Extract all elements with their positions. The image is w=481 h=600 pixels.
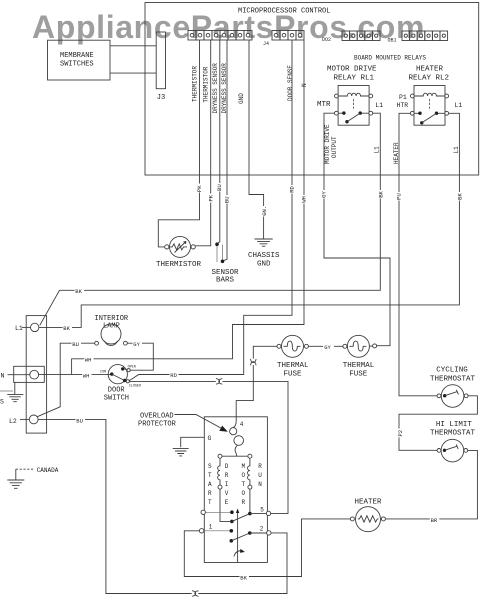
centrifugal switch upper contacts bbox=[201, 506, 271, 523]
svg-text:RD: RD bbox=[170, 372, 177, 379]
wire label BK at L1 terminal bbox=[63, 324, 73, 331]
wire BK RL2 L1 long run to terminal L1 bbox=[39, 113, 460, 327]
svg-text:THERMISTOR: THERMISTOR bbox=[156, 261, 202, 269]
wire label BK under RL2 bbox=[456, 192, 464, 201]
hi limit thermostat bbox=[430, 421, 476, 462]
wire GY lamp to door switch open bbox=[128, 343, 154, 370]
wire membrane to J3 lower bbox=[110, 72, 156, 74]
wire label GY top bbox=[320, 190, 328, 199]
connector J4 pin row bbox=[188, 31, 269, 48]
svg-text:CANADA: CANADA bbox=[37, 467, 59, 474]
svg-text:DOOR SENSE: DOOR SENSE bbox=[287, 65, 294, 101]
svg-text:BK: BK bbox=[75, 288, 82, 295]
svg-text:S: S bbox=[208, 463, 212, 470]
svg-text:R: R bbox=[258, 463, 262, 470]
svg-text:BK: BK bbox=[240, 574, 247, 581]
svg-text:A: A bbox=[208, 481, 212, 488]
wire BU dryness 2 bbox=[223, 40, 228, 261]
wire label BU 1 bbox=[216, 183, 224, 192]
svg-text:SWITCHES: SWITCHES bbox=[60, 60, 94, 68]
svg-text:BU: BU bbox=[72, 341, 79, 348]
svg-text:P1: P1 bbox=[399, 94, 407, 101]
svg-text:S: S bbox=[0, 399, 4, 406]
wire label GY between fuses bbox=[323, 343, 334, 350]
svg-text:U: U bbox=[258, 472, 262, 479]
heater bbox=[350, 499, 385, 532]
svg-text:T: T bbox=[208, 472, 212, 479]
wire label P2 bbox=[397, 429, 404, 438]
svg-text:DRYNESS SENSOR: DRYNESS SENSOR bbox=[212, 63, 219, 114]
wire BK RL1 L1 to terminal L1 bbox=[40, 113, 381, 325]
wire label BU at L2 bbox=[76, 416, 86, 423]
run winding bbox=[248, 458, 252, 513]
wire label BU 2 bbox=[223, 195, 231, 204]
svg-text:L1: L1 bbox=[373, 146, 380, 154]
svg-text:THERMAL: THERMAL bbox=[277, 362, 309, 370]
svg-text:SWITCH: SWITCH bbox=[104, 394, 129, 402]
relay RL2 heater bbox=[397, 65, 463, 125]
svg-text:OPEN: OPEN bbox=[128, 366, 136, 370]
svg-text:O: O bbox=[242, 472, 246, 479]
wire label WH row2 bbox=[82, 371, 92, 378]
wire cycling thermostat to hi limit (P2) bbox=[399, 396, 477, 451]
wire label RD at door switch bbox=[170, 371, 179, 378]
membrane switches box bbox=[48, 40, 111, 80]
cycling thermostat bbox=[430, 367, 476, 408]
wire door closed to motor terminal 5 bbox=[129, 381, 288, 513]
svg-text:THERMOSTAT: THERMOSTAT bbox=[430, 429, 476, 437]
svg-text:L1: L1 bbox=[455, 102, 463, 109]
svg-text:THERMISTOR: THERMISTOR bbox=[192, 66, 199, 102]
svg-text:T: T bbox=[208, 499, 212, 506]
wire thermal fuse 1 to fuse 2 bbox=[309, 345, 345, 347]
wire RD door sense bbox=[129, 40, 292, 381]
svg-text:R: R bbox=[225, 472, 229, 479]
svg-text:4: 4 bbox=[240, 421, 244, 428]
svg-text:M: M bbox=[242, 463, 246, 470]
wire label BU at lamp bbox=[72, 340, 82, 347]
microprocessor control board box bbox=[145, 3, 479, 176]
svg-text:J3: J3 bbox=[157, 94, 165, 102]
wire label BK under RL1 bbox=[377, 190, 385, 199]
svg-text:D: D bbox=[225, 463, 229, 470]
svg-text:GY: GY bbox=[321, 190, 328, 197]
motor winding top row bbox=[222, 455, 248, 457]
svg-text:BK: BK bbox=[63, 325, 70, 332]
wire PK thermistor 1 bbox=[158, 40, 199, 247]
wire label WH top bbox=[300, 195, 308, 204]
connector pin row door sense / N bbox=[272, 31, 304, 41]
winding name letters DRIVE bbox=[225, 463, 229, 506]
svg-text:2: 2 bbox=[260, 526, 264, 533]
svg-text:RELAY RL1: RELAY RL1 bbox=[334, 75, 375, 83]
svg-text:MTR: MTR bbox=[317, 101, 331, 109]
wire label BK long row bbox=[75, 287, 85, 294]
svg-text:N: N bbox=[258, 481, 262, 488]
interior lamp bbox=[95, 315, 129, 346]
wire hi limit to heater (BR) bbox=[386, 450, 478, 519]
svg-text:HTR: HTR bbox=[397, 102, 409, 109]
connector OB1 bbox=[388, 31, 448, 44]
svg-text:BOARD MOUNTED RELAYS: BOARD MOUNTED RELAYS bbox=[354, 55, 426, 62]
svg-text:THERMAL: THERMAL bbox=[343, 362, 375, 370]
svg-text:DOOR: DOOR bbox=[108, 386, 126, 394]
svg-text:P2: P2 bbox=[397, 430, 404, 437]
motor ground G bbox=[173, 435, 212, 456]
svg-text:V: V bbox=[225, 490, 229, 497]
connector DO2 bbox=[322, 31, 380, 43]
winding name letters MOTOR bbox=[242, 463, 246, 506]
thermal fuse 1 bbox=[277, 335, 309, 378]
svg-text:THERMOSTAT: THERMOSTAT bbox=[430, 375, 476, 383]
svg-text:HEATER: HEATER bbox=[416, 65, 444, 73]
wire thermal fuse 1 to motor overload terminal 4 bbox=[236, 346, 277, 421]
inline connector on bottom BU run bbox=[192, 591, 198, 597]
connector J3 bbox=[156, 32, 165, 102]
svg-text:E: E bbox=[225, 499, 229, 506]
svg-text:RELAY RL2: RELAY RL2 bbox=[409, 75, 450, 83]
wire label BK bottom row bbox=[240, 573, 250, 580]
svg-text:GN.: GN. bbox=[261, 206, 268, 216]
wire GY motor drive output to thermal fuse 2 bbox=[324, 113, 390, 346]
ground CANADA bbox=[7, 467, 58, 489]
wire PU heater output to cycling thermostat bbox=[399, 113, 437, 396]
wire BU dryness 1 bbox=[217, 40, 220, 244]
svg-text:L1: L1 bbox=[375, 102, 383, 109]
svg-text:PK: PK bbox=[207, 194, 214, 201]
svg-text:OVERLOAD: OVERLOAD bbox=[140, 413, 174, 421]
svg-text:J4: J4 bbox=[263, 41, 269, 47]
wire BU from L2 to motor terminal 2 bbox=[38, 419, 287, 593]
winding name letters START bbox=[208, 463, 212, 506]
door switch bbox=[100, 365, 141, 403]
svg-text:1: 1 bbox=[209, 524, 213, 531]
overload protector label and arrow bbox=[138, 413, 228, 432]
wire L2 diagonal to interior lamp bbox=[37, 343, 95, 417]
svg-text:FUSE: FUSE bbox=[284, 370, 303, 378]
svg-text:PK: PK bbox=[196, 185, 203, 192]
thermal fuse 2 bbox=[343, 335, 377, 378]
svg-text:G: G bbox=[208, 435, 212, 442]
centrifugal actuator bar bbox=[234, 509, 245, 563]
svg-text:5: 5 bbox=[260, 506, 264, 513]
chassis ground symbol bbox=[248, 239, 280, 268]
svg-text:CLOSED: CLOSED bbox=[129, 384, 141, 388]
overload protector device bbox=[230, 421, 244, 456]
svg-text:THERMISTOR: THERMISTOR bbox=[202, 66, 209, 102]
sensor bars bbox=[212, 243, 240, 285]
svg-text:GND: GND bbox=[257, 260, 271, 268]
inline connector on door closed wire bbox=[216, 379, 222, 385]
wire heater to motor terminal 1 bbox=[184, 519, 350, 577]
centrifugal switch lower contacts bbox=[199, 524, 271, 543]
svg-text:BK: BK bbox=[457, 192, 464, 199]
svg-text:R: R bbox=[208, 490, 212, 497]
svg-text:WH: WH bbox=[300, 196, 307, 203]
svg-text:BU: BU bbox=[216, 184, 223, 191]
svg-text:HEATER: HEATER bbox=[355, 499, 383, 507]
svg-text:CHASSIS: CHASSIS bbox=[248, 252, 280, 260]
wire label PK 1 bbox=[196, 184, 204, 193]
svg-text:BR: BR bbox=[431, 517, 438, 524]
svg-text:R: R bbox=[242, 499, 246, 506]
terminal L1 bbox=[15, 323, 39, 332]
svg-text:GY: GY bbox=[133, 341, 140, 348]
power terminal strip bbox=[26, 316, 46, 434]
svg-text:OB1: OB1 bbox=[388, 38, 397, 44]
svg-text:CYCLING: CYCLING bbox=[436, 367, 468, 375]
svg-text:I: I bbox=[225, 481, 229, 488]
svg-text:N: N bbox=[1, 372, 5, 379]
svg-text:GND: GND bbox=[238, 93, 245, 104]
svg-text:MOTOR DRIVE: MOTOR DRIVE bbox=[327, 65, 377, 73]
wire WH neutral from board bbox=[72, 40, 304, 374]
terminal N box bbox=[1, 366, 45, 382]
svg-text:WH: WH bbox=[83, 372, 90, 379]
motor box bbox=[204, 417, 267, 563]
wire label GY at lamp bbox=[133, 340, 143, 347]
svg-text:OUTPUT: OUTPUT bbox=[331, 136, 338, 158]
thermistor bbox=[156, 236, 202, 269]
svg-text:DO2: DO2 bbox=[322, 37, 331, 43]
svg-text:L2: L2 bbox=[9, 418, 17, 425]
wire PK thermistor 2 bbox=[195, 40, 210, 246]
wire GND to chassis ground bbox=[249, 40, 264, 239]
svg-text:PU: PU bbox=[396, 193, 403, 200]
svg-text:HI LIMIT: HI LIMIT bbox=[436, 421, 473, 429]
svg-text:MICROPROCESSOR CONTROL: MICROPROCESSOR CONTROL bbox=[238, 7, 330, 15]
svg-text:MEMBRANE: MEMBRANE bbox=[60, 52, 94, 60]
svg-text:O: O bbox=[242, 490, 246, 497]
svg-text:PROTECTOR: PROTECTOR bbox=[138, 420, 177, 428]
svg-text:FUSE: FUSE bbox=[349, 370, 368, 378]
svg-text:BU: BU bbox=[224, 196, 231, 203]
svg-text:BARS: BARS bbox=[216, 277, 235, 285]
start winding bbox=[218, 458, 230, 521]
wire membrane to J3 upper bbox=[110, 45, 156, 47]
ground at N (US) bbox=[0, 382, 23, 405]
wire WH row2 N to door COM bbox=[39, 374, 112, 376]
relay RL1 motor drive bbox=[317, 65, 383, 125]
svg-text:COM: COM bbox=[100, 371, 106, 375]
svg-text:BU: BU bbox=[76, 417, 83, 424]
wire label GN bbox=[261, 206, 268, 217]
svg-text:L1: L1 bbox=[453, 146, 460, 154]
wire label BR bbox=[430, 516, 440, 523]
inline connector on fuse-motor wire bbox=[251, 359, 257, 365]
svg-text:RD: RD bbox=[288, 185, 295, 192]
winding name letters RUN bbox=[258, 463, 262, 488]
wire label PU bbox=[395, 192, 403, 201]
svg-text:BK: BK bbox=[377, 190, 384, 197]
svg-text:T: T bbox=[242, 481, 246, 488]
wire label RD top bbox=[288, 185, 296, 194]
svg-text:WH: WH bbox=[85, 357, 92, 364]
terminal L2 bbox=[9, 415, 38, 425]
wire label PK 2 bbox=[207, 194, 215, 203]
svg-text:L1: L1 bbox=[15, 325, 23, 332]
svg-text:GY: GY bbox=[324, 344, 331, 351]
wire label WH row1 bbox=[84, 355, 94, 362]
